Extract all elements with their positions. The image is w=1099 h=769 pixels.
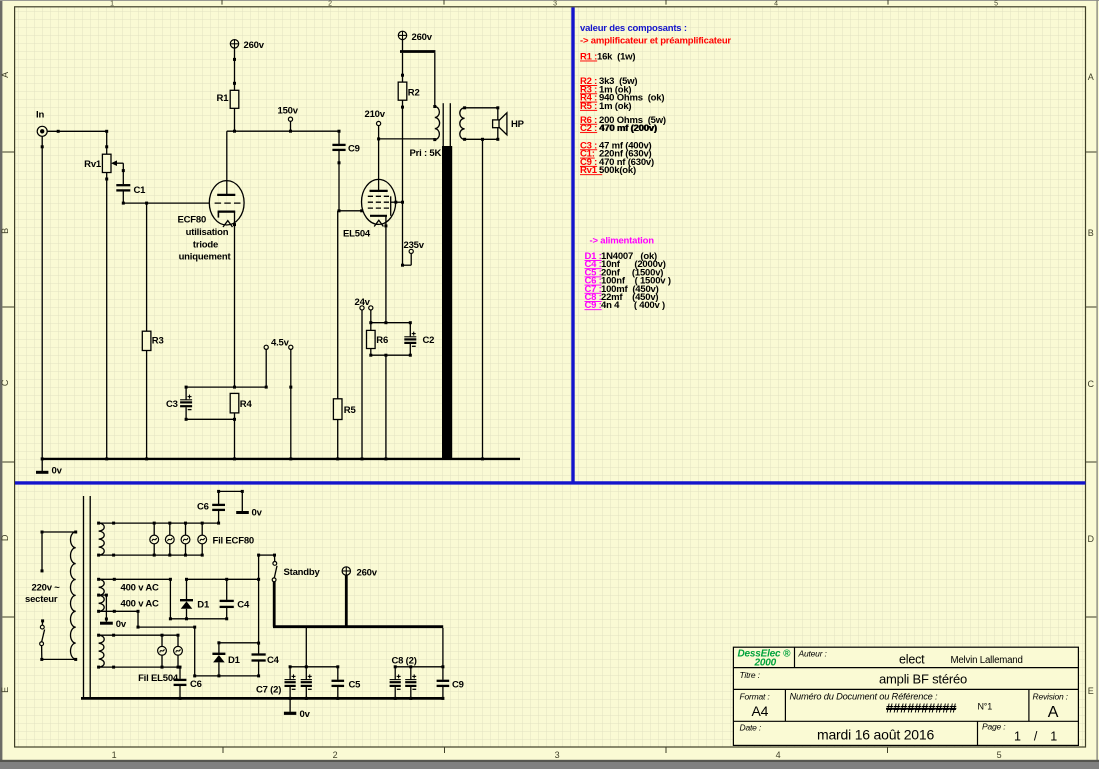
svg-text:210v: 210v	[365, 109, 386, 120]
svg-text:Pri : 5K: Pri : 5K	[410, 148, 442, 159]
transformer secondary coil	[460, 106, 466, 141]
svg-text:4: 4	[774, 1, 778, 8]
HT center tap to ground	[97, 594, 113, 624]
svg-text:-> alimentation: -> alimentation	[590, 236, 655, 247]
wire secondary bottom to HP and 0v	[465, 128, 500, 141]
260v thick bus	[273, 625, 443, 628]
svg-text:B: B	[0, 228, 10, 234]
svg-text:Format :: Format :	[740, 692, 771, 702]
svg-text:2: 2	[333, 750, 338, 760]
blue divider vertical	[571, 7, 574, 483]
svg-text:1: 1	[110, 1, 114, 8]
label ECF80 utilisation triode uniquement	[178, 215, 232, 263]
Rv1 wiper arrow	[111, 160, 123, 166]
transformer core lines	[443, 103, 450, 146]
Fil ECF80 top rail	[97, 522, 220, 525]
wire secondary top to HP	[465, 106, 500, 120]
svg-text:ampli BF stéréo: ampli BF stéréo	[879, 672, 967, 687]
wire mains to primary bottom	[40, 658, 77, 661]
capacitor C6 heater EL504	[174, 667, 187, 698]
Fil ECF80 bottom rail	[97, 554, 204, 557]
svg-text:C1: C1	[134, 185, 147, 196]
wire R3 top lead	[146, 203, 148, 331]
svg-text:Rv1: Rv1	[84, 159, 102, 170]
rectifier bottom rail upper	[170, 617, 228, 620]
svg-text:150v: 150v	[278, 106, 299, 117]
svg-text:C6: C6	[197, 501, 209, 512]
wire R6 C2 rail to 0v bus	[385, 355, 387, 459]
svg-text:5: 5	[994, 1, 998, 8]
heater winding Fil EL504	[99, 635, 105, 667]
transformer primary Pri 5K	[433, 105, 439, 141]
resistor R1	[230, 90, 239, 108]
svg-text:C7 (2): C7 (2)	[256, 684, 281, 695]
wire C3 top lead	[185, 387, 187, 400]
svg-text:Page :: Page :	[982, 722, 1006, 732]
input connector In	[37, 126, 47, 136]
resistor R6	[367, 323, 376, 356]
potentiometer Rv1	[102, 154, 111, 172]
triode ECF80	[209, 131, 244, 227]
HT bottom tap wire	[97, 610, 196, 678]
capacitor C9 supply	[437, 667, 450, 698]
rectifier output rail upper	[185, 578, 260, 581]
svg-text:ECF80: ECF80	[178, 215, 207, 226]
row tick marks right	[1086, 151, 1097, 153]
page left edge	[0, 0, 2, 762]
terminal 24v left	[360, 306, 364, 459]
power terminal 260v output stage	[398, 31, 406, 39]
svg-text:A4: A4	[752, 703, 769, 719]
ground 0v at C6	[236, 511, 249, 514]
wire output node down to lower rectifier	[257, 579, 260, 644]
speaker HP	[493, 113, 507, 135]
svg-text:2: 2	[328, 1, 332, 8]
ground symbol 0v amplifier	[36, 459, 48, 472]
svg-text:1 / 1: 1 / 1	[1014, 730, 1057, 744]
resistor R5	[333, 399, 342, 420]
node anode ECF80 horizontal 150v line	[227, 130, 341, 133]
svg-text:400 v AC: 400 v AC	[121, 583, 160, 594]
svg-text:400 v AC: 400 v AC	[121, 599, 160, 610]
svg-text:Fil EL504: Fil EL504	[138, 673, 179, 684]
page right edge	[1096, 0, 1097, 762]
capacitor C2	[404, 323, 416, 356]
svg-text:C2: C2	[423, 335, 435, 346]
svg-text:C9 :: C9 :	[585, 300, 602, 311]
mains transformer core	[84, 496, 91, 698]
row tick marks left	[2, 151, 14, 153]
svg-text:D1: D1	[228, 655, 241, 666]
heater symbols Fil ECF80	[150, 523, 207, 555]
capacitor C5	[332, 667, 345, 698]
svg-text:R2: R2	[408, 88, 420, 99]
terminal 210v	[377, 121, 381, 138]
svg-text:In: In	[36, 110, 44, 121]
HT top tap wire	[97, 578, 172, 621]
wire R3 bottom to 0v bus	[146, 351, 148, 459]
svg-text:C3: C3	[166, 399, 178, 410]
svg-text:260v: 260v	[244, 40, 265, 51]
svg-text:3: 3	[553, 1, 557, 8]
thick wire standby to 260v bus	[273, 582, 276, 627]
svg-text:220v ~: 220v ~	[32, 583, 61, 594]
svg-text:R5: R5	[344, 405, 357, 416]
svg-text:uniquement: uniquement	[179, 252, 232, 263]
terminal 150v	[288, 117, 292, 131]
svg-text:Date :: Date :	[740, 723, 762, 733]
column tick marks top	[221, 0, 223, 5]
Fil EL504 bottom rail	[97, 666, 181, 669]
svg-text:utilisation: utilisation	[186, 227, 229, 238]
resistor R3	[142, 331, 151, 350]
wire EL504 cathode down	[385, 216, 387, 323]
svg-text:3: 3	[555, 750, 560, 760]
svg-text:4.5v: 4.5v	[271, 337, 290, 348]
wire C1 to ECF80 grid node	[122, 191, 210, 204]
0v bus amplifier	[41, 457, 520, 460]
diode D1 lower	[212, 643, 225, 678]
HT winding 400v	[99, 579, 105, 611]
svg-text:elect: elect	[899, 653, 925, 667]
svg-text:triode: triode	[193, 239, 218, 250]
svg-text:HP: HP	[511, 119, 525, 130]
page bottom edge and gray strip	[0, 760, 1099, 762]
svg-text:470 mf (200v): 470 mf (200v)	[599, 123, 657, 134]
svg-text:0v: 0v	[300, 709, 311, 720]
terminal 235v	[403, 249, 414, 265]
capacitor C1	[116, 185, 130, 190]
wire In shield down to 0v bus	[41, 136, 44, 459]
svg-text:A: A	[0, 72, 10, 78]
svg-text:0v: 0v	[52, 465, 63, 476]
mains input terminal upper	[41, 531, 78, 573]
cathode rail R6 C2 bottom	[369, 354, 412, 357]
svg-text:R4: R4	[240, 399, 253, 410]
svg-text:1m (ok): 1m (ok)	[599, 101, 631, 112]
power terminal 260v for R1	[230, 40, 238, 48]
diode D1 upper	[180, 579, 193, 619]
page top edge	[0, 0, 1099, 1]
wire Rv1 top lead	[105, 131, 108, 154]
column tick marks bottom	[222, 747, 224, 753]
filter rail C7 C5	[289, 665, 340, 668]
svg-text:4n 4 ( 400v ): 4n 4 ( 400v )	[601, 300, 665, 311]
svg-text:R1 :: R1 :	[580, 52, 597, 63]
svg-text:##########: ##########	[886, 701, 957, 716]
svg-text:C9: C9	[348, 144, 360, 155]
svg-text:C4: C4	[267, 655, 280, 666]
svg-text:Melvin Lallemand: Melvin Lallemand	[951, 655, 1023, 666]
capacitor C9 coupling	[332, 131, 345, 211]
svg-text:0v: 0v	[252, 507, 263, 518]
title block frame	[733, 647, 1078, 745]
wire C9 to EL504 grid	[338, 209, 364, 212]
transformer core thick bar	[442, 146, 452, 459]
svg-text:C2 :: C2 :	[580, 123, 597, 134]
wire grid leak R5 top	[337, 211, 339, 399]
svg-text:E: E	[0, 687, 10, 693]
svg-text:C9: C9	[452, 679, 464, 690]
svg-text:2000: 2000	[754, 658, 777, 669]
wire In to Rv1 top corner	[47, 130, 108, 133]
svg-text:mardi 16 août 2016: mardi 16 août 2016	[817, 727, 934, 743]
svg-text:-> amplificateur et préamplifi: -> amplificateur et préamplificateur	[580, 36, 731, 47]
wire R5 bottom to 0v bus	[337, 420, 339, 459]
svg-text:R6: R6	[376, 335, 388, 346]
thick 260v feed bar	[400, 40, 435, 52]
wire Rv1 bottom to 0v bus	[105, 173, 108, 459]
svg-text:A: A	[1088, 72, 1094, 82]
svg-text:C: C	[1087, 379, 1094, 389]
svg-text:16k (1w): 16k (1w)	[597, 52, 635, 63]
capacitor C8 pair	[390, 667, 417, 698]
terminal 24v right	[369, 306, 373, 323]
mains transformer primary coil	[70, 532, 75, 659]
svg-text:R3: R3	[152, 335, 164, 346]
resistor R2	[398, 82, 407, 100]
wire to output transformer primary top	[434, 53, 436, 107]
svg-text:B: B	[1088, 228, 1094, 238]
svg-text:E: E	[1088, 686, 1094, 696]
svg-text:1: 1	[112, 750, 117, 760]
svg-text:D: D	[0, 534, 10, 541]
pentode EL504	[362, 139, 403, 228]
resistor R4	[230, 393, 239, 413]
capacitor C3	[180, 395, 192, 410]
terminal 4.5v left	[264, 345, 268, 387]
wire HP return down to 0v bus	[482, 139, 484, 459]
wire 260v to R1	[233, 48, 236, 90]
svg-text:Revision :: Revision :	[1033, 692, 1069, 702]
svg-text:C6: C6	[190, 679, 202, 690]
logo DessElec 2000	[738, 649, 791, 669]
Fil EL504 top rail	[97, 634, 179, 637]
svg-text:Titre :: Titre :	[740, 670, 761, 680]
terminal 4.5v right	[289, 345, 293, 459]
wire R1 bottom to anode node	[234, 108, 236, 131]
svg-text:A: A	[1048, 704, 1059, 721]
rectifier bottom rail lower	[195, 675, 259, 677]
svg-text:Fil ECF80: Fil ECF80	[213, 535, 255, 546]
wire 260v bus right drop	[442, 628, 444, 667]
capacitor C4 upper	[220, 579, 234, 619]
wire R2 bottom to g2 and 235v	[401, 100, 404, 267]
wire R4 bottom to 0v bus	[234, 413, 236, 459]
cathode rail of ECF80 with R4 and C3	[185, 386, 268, 389]
wire R2 node down from 260v bar	[401, 53, 404, 82]
svg-text:24v: 24v	[355, 297, 371, 308]
svg-text:R1: R1	[217, 93, 230, 104]
svg-text:0v: 0v	[116, 619, 127, 630]
0v bus supply	[81, 697, 444, 700]
svg-text:valeur des composants :: valeur des composants :	[580, 23, 687, 34]
wire ECF80 cathode down to R4 rail	[233, 212, 236, 388]
svg-text:500k(ok): 500k(ok)	[599, 165, 636, 176]
wire C3 bottom to R4 bottom	[185, 407, 236, 421]
wire wiper to C1	[122, 163, 125, 184]
svg-text:235v: 235v	[404, 240, 425, 251]
capacitor C7 pair	[285, 667, 312, 698]
svg-text:secteur: secteur	[25, 594, 58, 605]
wire filter rail riser	[305, 628, 307, 667]
heater winding Fil ECF80	[99, 523, 105, 555]
power terminal 260v supply	[342, 567, 350, 575]
capacitor C4 lower	[252, 643, 266, 678]
heater symbols Fil EL504	[158, 635, 183, 667]
cathode rail R6 C2 top	[369, 321, 412, 324]
svg-text:N°1: N°1	[978, 702, 993, 712]
svg-text:D1: D1	[197, 600, 210, 611]
wire output node to standby	[257, 554, 276, 580]
standby switch	[272, 555, 277, 582]
ground symbol 0v supply	[284, 698, 296, 713]
svg-text:R5 :: R5 :	[580, 101, 597, 112]
svg-text:4: 4	[776, 750, 781, 760]
svg-text:260v: 260v	[412, 32, 433, 43]
svg-text:5: 5	[997, 750, 1002, 760]
mains switch	[40, 619, 45, 659]
blue divider horizontal	[15, 481, 1086, 484]
label 220v secteur	[25, 583, 60, 606]
svg-text:EL504: EL504	[343, 228, 371, 239]
wire EL504 anode to transformer primary	[377, 137, 435, 140]
thick wire 260v to bus	[345, 575, 348, 626]
svg-text:260v: 260v	[357, 567, 378, 578]
svg-text:Auteur :: Auteur :	[798, 649, 828, 659]
filter rail C8 C9	[394, 665, 445, 668]
capacitor C6 heater decoupling	[212, 490, 244, 523]
svg-text:C8 (2): C8 (2)	[392, 655, 417, 666]
svg-text:Standby: Standby	[284, 567, 321, 578]
svg-text:C4: C4	[237, 600, 250, 611]
svg-text:C: C	[0, 379, 10, 386]
svg-text:C5: C5	[349, 679, 362, 690]
rectifier output rail lower	[217, 641, 258, 644]
svg-text:D: D	[1087, 534, 1094, 544]
